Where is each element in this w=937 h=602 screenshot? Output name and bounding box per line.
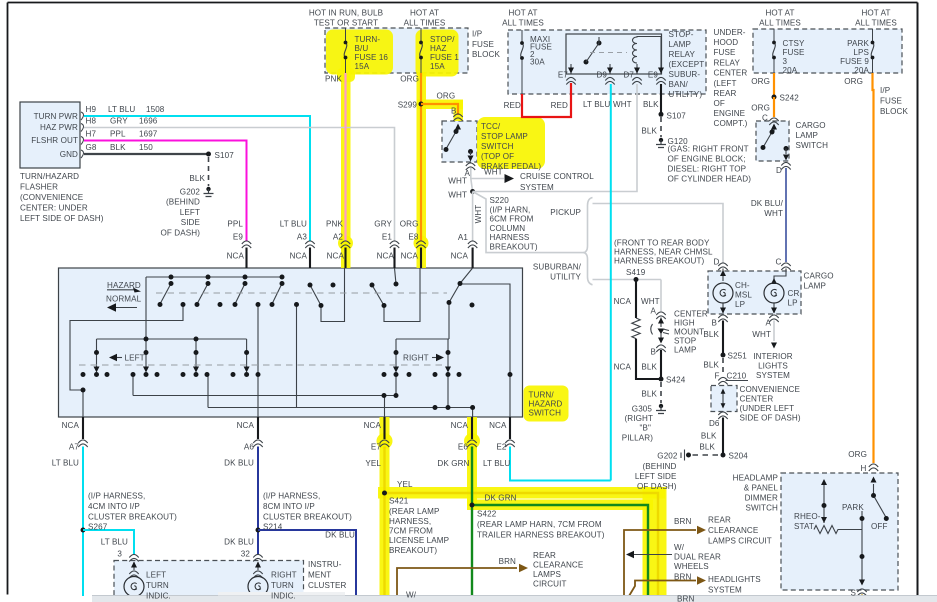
svg-text:S220: S220: [490, 196, 510, 205]
text: WHT vertical on A1 wire: [474, 205, 483, 224]
switch contact dots: [81, 275, 513, 411]
wire NCA resistor to S424: [636, 339, 661, 379]
svg-text:ALL TIMES: ALL TIMES: [759, 19, 801, 28]
svg-text:FLSHR OUT: FLSHR OUT: [31, 136, 78, 145]
highlight band on YEL horizontal run: [378, 487, 665, 499]
wire BLK dashed S424 to G305: [660, 382, 662, 403]
svg-text:PPL: PPL: [110, 130, 126, 139]
svg-text:20A: 20A: [854, 66, 869, 75]
svg-text:OF DASH): OF DASH): [637, 482, 677, 491]
svg-text:(I/P HARN,: (I/P HARN,: [490, 205, 531, 214]
svg-text:3: 3: [783, 57, 788, 66]
dual rear wheels pointer: [626, 551, 672, 558]
text: front to rear body harness: [614, 239, 713, 278]
svg-text:C210: C210: [727, 372, 747, 381]
svg-text:(BEHIND: (BEHIND: [643, 462, 677, 471]
switch dashed guide lines: [79, 293, 447, 365]
svg-text:STAT: STAT: [794, 522, 814, 531]
highlighter marks (yellow): [326, 30, 667, 597]
svg-text:NCA: NCA: [227, 252, 245, 261]
MAXI fuse 2: [520, 30, 524, 94]
svg-text:LP: LP: [788, 299, 798, 308]
svg-text:HOT IN RUN, BULB: HOT IN RUN, BULB: [309, 9, 383, 18]
cargo lamp switch contacts: [761, 124, 790, 161]
svg-text:FUSE 1: FUSE 1: [430, 53, 459, 62]
ground G202 (behind left side of dash, right): [681, 450, 691, 461]
svg-text:H9: H9: [86, 105, 97, 114]
svg-text:NCA: NCA: [364, 421, 382, 430]
svg-text:CTSY: CTSY: [783, 39, 805, 48]
svg-text:SWITCH: SWITCH: [796, 141, 829, 150]
wire WHT CR-A to interior lights: [771, 321, 777, 349]
text: I/P fuse block left: [472, 30, 500, 60]
wire LT BLU A7 to S267 and down: [82, 447, 84, 597]
text: S107 left and G202: [161, 151, 235, 238]
svg-text:CENTER: CENTER: [740, 395, 774, 404]
highlight burst at E7 connector: [377, 433, 393, 449]
svg-text:FUSE: FUSE: [880, 97, 902, 106]
svg-text:E7: E7: [558, 71, 568, 80]
svg-text:(FRONT TO REAR BODY: (FRONT TO REAR BODY: [614, 239, 710, 248]
svg-text:E9: E9: [648, 71, 658, 80]
svg-text:OF CYLINDER HEAD): OF CYLINDER HEAD): [668, 175, 752, 184]
wire BLK CHMSL B to S424: [660, 350, 662, 379]
text: S220 caption: [490, 196, 538, 252]
svg-text:LT BLU: LT BLU: [280, 220, 307, 229]
text: interior lights system: [753, 352, 793, 380]
svg-text:150: 150: [139, 143, 153, 152]
svg-text:MSL: MSL: [735, 291, 752, 300]
svg-text:HOT AT: HOT AT: [765, 9, 794, 18]
svg-text:LT BLU: LT BLU: [52, 459, 79, 468]
turn/hazard switch box: [59, 268, 523, 417]
text: S267 caption: [88, 492, 177, 532]
svg-text:ALL TIMES: ALL TIMES: [404, 19, 446, 28]
svg-text:C: C: [776, 258, 782, 267]
svg-text:HOOD: HOOD: [714, 38, 739, 47]
svg-text:S: S: [851, 589, 857, 598]
contact 1: [160, 284, 171, 305]
svg-text:S419: S419: [626, 268, 646, 277]
svg-text:(REAR LAMP: (REAR LAMP: [389, 507, 439, 516]
svg-text:A: A: [651, 307, 657, 316]
contact 6: [372, 285, 384, 306]
svg-text:6CM FROM: 6CM FROM: [490, 215, 534, 224]
hazard label arrow: [107, 288, 141, 293]
svg-text:ENGINE: ENGINE: [714, 109, 746, 118]
svg-text:UNDER-: UNDER-: [714, 28, 746, 37]
svg-text:HEADLIGHTS: HEADLIGHTS: [708, 575, 761, 584]
svg-text:SYSTEM: SYSTEM: [756, 371, 790, 380]
svg-text:CARGO: CARGO: [796, 121, 826, 130]
contact 2: [197, 284, 208, 305]
left riser to A7: [70, 305, 183, 417]
svg-text:15A: 15A: [355, 62, 370, 71]
svg-text:TURN: TURN: [146, 581, 169, 590]
black stubs from top connectors into switch box: [247, 248, 473, 269]
svg-text:YEL: YEL: [397, 480, 413, 489]
svg-text:S242: S242: [780, 94, 800, 103]
text: maxi fuse: [530, 35, 552, 67]
text: stop lamp relay caption: [669, 30, 705, 99]
svg-text:S107: S107: [215, 151, 235, 160]
svg-text:LEFT SIDE: LEFT SIDE: [635, 472, 677, 481]
contact 5: [310, 285, 321, 306]
svg-text:(BEHIND: (BEHIND: [166, 198, 200, 207]
bottom pin stubs of turn/hazard switch: [83, 417, 510, 439]
svg-text:NCA: NCA: [489, 421, 507, 430]
wire LT BLU 1508 from flasher H9: [84, 116, 310, 241]
svg-text:LT BLU: LT BLU: [108, 105, 135, 114]
svg-text:G305: G305: [632, 405, 653, 414]
cargo lamp switch box: [756, 121, 789, 161]
svg-text:CLUSTER BREAKOUT): CLUSTER BREAKOUT): [263, 513, 352, 522]
svg-text:1697: 1697: [139, 130, 158, 139]
svg-text:I/P: I/P: [472, 30, 482, 39]
svg-text:DIMMER: DIMMER: [745, 494, 778, 503]
svg-text:DK BLU: DK BLU: [224, 459, 254, 468]
svg-text:G8: G8: [86, 143, 97, 152]
svg-text:YEL: YEL: [365, 459, 381, 468]
svg-text:LIGHTS: LIGHTS: [758, 362, 788, 371]
text: relay pin ids: [558, 71, 658, 80]
svg-text:LAMP: LAMP: [804, 282, 826, 291]
text: A1 NCA: [451, 233, 469, 261]
svg-text:D9: D9: [596, 71, 607, 80]
svg-text:SYSTEM: SYSTEM: [520, 183, 554, 192]
svg-text:CRUISE CONTROL: CRUISE CONTROL: [520, 172, 594, 181]
text: TCC A WHT labels: [448, 169, 470, 200]
text: left right: [125, 354, 429, 363]
turn/hazard flasher box: [20, 102, 80, 168]
text: CH-MSL LP: [735, 281, 752, 309]
text: pickup suburban: [533, 208, 582, 282]
svg-text:(REAR LAMP HARN, 7CM FROM: (REAR LAMP HARN, 7CM FROM: [477, 520, 602, 529]
E6 riser: [208, 305, 473, 417]
svg-text:FUSE 9: FUSE 9: [840, 57, 869, 66]
inner rect left: [97, 277, 247, 339]
svg-text:RIGHT: RIGHT: [403, 354, 429, 363]
text: CTSY fuse: [783, 39, 805, 75]
moving contact stems left: [97, 339, 247, 369]
svg-text:DK BLU: DK BLU: [325, 531, 355, 540]
svg-text:BLK: BLK: [641, 363, 657, 372]
text: flasher pins: [31, 112, 78, 159]
text: D and DK BLU/WHT: [751, 166, 784, 218]
text: cargo lamp caption: [804, 272, 834, 291]
text: B BLK NCA S424 at CHMSL: [614, 348, 686, 399]
highlight over STOP/HAZ FUSE 1 text: [416, 30, 459, 77]
svg-text:BLK: BLK: [699, 443, 715, 452]
svg-text:SWITCH: SWITCH: [529, 409, 562, 418]
svg-text:S107: S107: [667, 112, 687, 121]
text: flasher wire codes: [86, 105, 165, 152]
text: ORG labels under right fuse box: [751, 77, 863, 86]
svg-text:C: C: [762, 114, 768, 123]
svg-text:FUSE: FUSE: [714, 48, 736, 57]
page frame left: [7, 3, 9, 595]
wire ORG from fuse 1 through S299 to E8: [420, 73, 422, 241]
svg-text:ORG: ORG: [751, 104, 770, 113]
svg-text:DK GRN: DK GRN: [437, 459, 469, 468]
right inner rect: [396, 303, 449, 370]
text: bottom pin labels: [52, 421, 507, 468]
splice S267: [81, 528, 86, 533]
svg-text:8CM INTO I/P: 8CM INTO I/P: [263, 502, 315, 511]
wire YEL E7 through S421: [385, 447, 659, 597]
svg-text:(UNDER LEFT: (UNDER LEFT: [740, 404, 795, 413]
dimmer switch rheostat arm: [821, 479, 827, 523]
relay coil: [633, 37, 662, 65]
svg-text:PARK: PARK: [847, 39, 869, 48]
svg-text:BREAKOUT): BREAKOUT): [389, 546, 437, 555]
svg-text:(CONVENIENCE: (CONVENIENCE: [20, 193, 84, 202]
svg-text:(TOP OF: (TOP OF: [481, 152, 514, 161]
svg-text:BLOCK: BLOCK: [880, 107, 908, 116]
svg-text:S267: S267: [88, 523, 108, 532]
highlight band on ORG fuse wire: [417, 72, 427, 268]
U link E8 to contact 6: [384, 268, 420, 322]
wire GRY 1696 from flasher H8: [84, 128, 395, 242]
svg-text:MENT: MENT: [308, 571, 331, 580]
svg-text:BAN/: BAN/: [669, 80, 689, 89]
svg-text:S421: S421: [389, 497, 409, 506]
svg-text:BLK: BLK: [703, 330, 719, 339]
svg-text:HIGH: HIGH: [674, 319, 695, 328]
text: D6 BLK S204: [699, 419, 748, 461]
highlight over TCC/STOP LAMP SWITCH text: [477, 117, 545, 169]
svg-text:S424: S424: [666, 376, 686, 385]
svg-text:20A: 20A: [783, 66, 798, 75]
I/P fuse block box (top right, CTSY + PARK fuses): [753, 29, 902, 73]
svg-text:LEFT SIDE OF DASH): LEFT SIDE OF DASH): [20, 214, 104, 223]
connector C cargo lamp box: [781, 263, 790, 270]
svg-text:BLK: BLK: [110, 143, 126, 152]
text: cargo lamp box pins: [714, 258, 782, 267]
normal label arrow: [107, 303, 137, 311]
splice S251: [721, 353, 726, 358]
wire WHT from relay D7 to junction: [473, 84, 637, 192]
wire PPL 1697 from flasher H7: [84, 141, 247, 242]
svg-text:LPS: LPS: [853, 48, 869, 57]
svg-text:FLASHER: FLASHER: [20, 183, 58, 192]
splice S424: [659, 377, 664, 382]
svg-text:CARGO: CARGO: [804, 272, 834, 281]
I/P fuse block box (top left, fuses 16 and 1): [325, 28, 468, 73]
svg-text:NCA: NCA: [451, 421, 469, 430]
svg-text:TURN/HAZARD: TURN/HAZARD: [20, 172, 79, 181]
svg-text:LEFT: LEFT: [180, 208, 200, 217]
underhood fuse relay center box: [508, 30, 706, 94]
wire WHT S419 to CHMSL A: [660, 280, 662, 312]
connector A below CR LP: [769, 315, 778, 322]
splice S422: [470, 503, 475, 508]
svg-text:SWITCH: SWITCH: [481, 142, 514, 151]
svg-text:LT BLU: LT BLU: [483, 459, 510, 468]
svg-text:HARNESS BREAKOUT): HARNESS BREAKOUT): [614, 257, 705, 266]
connector H dimmer switch: [869, 464, 878, 471]
svg-text:ALL TIMES: ALL TIMES: [855, 19, 897, 28]
bottom pin connectors A7 A6 E7 E6 E2: [78, 440, 514, 447]
svg-text:SWITCH: SWITCH: [745, 504, 778, 513]
svg-text:(I/P HARNESS,: (I/P HARNESS,: [263, 492, 320, 501]
svg-text:E6: E6: [458, 443, 468, 452]
hazard bus: [146, 276, 282, 278]
svg-text:S422: S422: [477, 510, 497, 519]
instrument cluster box: [114, 561, 304, 602]
svg-text:ORG: ORG: [848, 450, 867, 459]
text: S299 B branch: [398, 92, 457, 116]
svg-text:LT BLU: LT BLU: [583, 100, 610, 109]
svg-text:CR: CR: [788, 289, 800, 298]
wire WHT junction down to A1: [472, 192, 474, 242]
svg-text:A6: A6: [244, 443, 254, 452]
relay pin connectors E7 D9 D7 E9: [566, 77, 665, 84]
svg-text:ORG: ORG: [844, 77, 863, 86]
PARK LPS fuse 9: [871, 29, 875, 73]
svg-text:32: 32: [241, 550, 251, 559]
svg-text:(RIGHT: (RIGHT: [625, 414, 653, 423]
wire BLK dashed S204 to G202: [692, 454, 718, 456]
svg-text:PARK: PARK: [842, 503, 864, 512]
A6 riser: [257, 305, 259, 417]
svg-text:BRN: BRN: [677, 595, 694, 602]
svg-text:NORMAL: NORMAL: [106, 295, 142, 304]
svg-text:HAZ PWR: HAZ PWR: [40, 123, 78, 132]
svg-text:SUBURBAN/: SUBURBAN/: [533, 263, 582, 272]
wire WHT branch to cruise control: [471, 174, 514, 183]
highlight over TURN-B/U FUSE 16 text: [326, 30, 393, 75]
svg-text:A7: A7: [69, 443, 79, 452]
highlight band on E7 YEL wire: [380, 417, 390, 596]
wire DK GRN E6 through S422: [472, 447, 648, 597]
svg-text:DUAL REAR: DUAL REAR: [674, 553, 721, 562]
svg-text:D6: D6: [709, 419, 720, 428]
connector D cargo lamp switch: [781, 162, 790, 169]
svg-text:CENTER: UNDER: CENTER: UNDER: [20, 204, 88, 213]
svg-text:SIDE: SIDE: [181, 218, 201, 227]
brace pickup/suburban: [584, 198, 593, 285]
svg-text:ALL TIMES: ALL TIMES: [502, 19, 544, 28]
wire WHT suburban arm to S419: [593, 279, 662, 281]
wire WHT junction to pickup/suburban brace: [473, 192, 584, 253]
wire DK BLU S214 branch down right: [258, 530, 356, 596]
svg-text:LICENSE LAMP: LICENSE LAMP: [389, 536, 449, 545]
svg-text:CONVENIENCE: CONVENIENCE: [740, 385, 801, 394]
svg-text:BLK: BLK: [701, 432, 717, 441]
svg-text:NCA: NCA: [377, 252, 395, 261]
svg-text:B: B: [712, 319, 718, 328]
svg-text:NCA: NCA: [290, 252, 308, 261]
highlight burst at E6 connector: [464, 433, 480, 449]
connector D6: [718, 412, 727, 419]
svg-text:RHEO-: RHEO-: [794, 512, 821, 521]
CR LP bulb: [764, 269, 786, 314]
dimmer off switch blade: [871, 477, 889, 522]
text: w/ dual rear wheels: [674, 543, 721, 571]
svg-text:15A: 15A: [430, 62, 445, 71]
turn/hazard switch internals: [70, 268, 510, 417]
wire ORG PARK fuse down to dimmer H: [873, 73, 874, 463]
top pin connectors of turn/hazard switch: [242, 241, 477, 248]
wire BRN rear clearance (left): [397, 564, 528, 596]
svg-text:H8: H8: [86, 117, 97, 126]
text: underhood fuse relay center caption: [714, 28, 748, 128]
wire LT BLU relay D9 down: [610, 84, 612, 481]
svg-text:LAMPS: LAMPS: [533, 570, 561, 579]
svg-text:CENTER: CENTER: [674, 310, 708, 319]
connector B below CH-MSL: [718, 315, 727, 322]
wire BRN rear clearance (right): [624, 526, 706, 596]
svg-text:B: B: [451, 107, 457, 116]
splice S204: [721, 453, 726, 458]
svg-text:D: D: [714, 258, 720, 267]
svg-text:7CM FROM: 7CM FROM: [389, 527, 433, 536]
ground G120: [656, 138, 666, 148]
svg-text:OF DASH): OF DASH): [161, 229, 201, 238]
text: convenience center caption: [740, 385, 801, 423]
svg-text:S251: S251: [728, 352, 748, 361]
connector B of CHMSL: [656, 345, 665, 352]
svg-text:W/: W/: [406, 591, 417, 600]
text: cargo lamp switch caption: [796, 121, 829, 150]
splice S214: [256, 528, 261, 533]
text: NCA WHT at S419: [614, 297, 660, 316]
wire BLK CHMSL-B to S251: [722, 321, 724, 356]
svg-text:INDIC.: INDIC.: [271, 592, 296, 601]
svg-text:NCA: NCA: [62, 421, 80, 430]
connector A of CHMSL: [656, 312, 665, 319]
svg-text:A: A: [766, 319, 772, 328]
right arrow: [432, 354, 444, 361]
svg-text:& PANEL: & PANEL: [744, 484, 779, 493]
text: brn rear clearance right: [674, 516, 772, 546]
svg-text:BRN: BRN: [674, 517, 691, 526]
svg-text:HARNESS: HARNESS: [490, 233, 530, 242]
wire BLK relay E9 to S107: [660, 84, 662, 114]
svg-text:HARNESS, NEAR CHMSL: HARNESS, NEAR CHMSL: [614, 248, 713, 257]
wire BLK dashed S251 to C210: [722, 358, 724, 376]
text: rheostat park off: [794, 503, 887, 598]
svg-text:S204: S204: [729, 452, 749, 461]
svg-text:DIESEL: RIGHT TOP: DIESEL: RIGHT TOP: [668, 165, 747, 174]
text: I/P fuse block right: [880, 86, 908, 116]
svg-text:LEFT: LEFT: [146, 571, 166, 580]
wire PNK from fuse 16 to A2: [344, 73, 346, 241]
center high mount stop lamp (LED): [651, 318, 669, 344]
svg-text:TURN PWR: TURN PWR: [34, 112, 78, 121]
text: right turn indic: [271, 571, 297, 601]
svg-text:WHT: WHT: [448, 191, 467, 200]
svg-text:D: D: [776, 166, 782, 175]
svg-text:1696: 1696: [139, 117, 158, 126]
svg-text:CLUSTER BREAKOUT): CLUSTER BREAKOUT): [88, 513, 177, 522]
wire NCA S419 down to resistor: [635, 280, 637, 319]
svg-text:FUSE: FUSE: [472, 40, 494, 49]
svg-text:30A: 30A: [530, 58, 545, 67]
wire LT BLU E2 joining D9 run: [510, 447, 611, 481]
wire ORG branch S299 to B: [421, 104, 458, 115]
junction dot WHT: [470, 189, 475, 194]
highlight over TURN/HAZARD SWITCH text: [524, 386, 569, 422]
svg-text:CH-: CH-: [735, 281, 750, 290]
highlight band on DK GRN horizontal run: [467, 500, 653, 511]
svg-text:GRY: GRY: [374, 220, 392, 229]
svg-text:NCA: NCA: [237, 421, 255, 430]
svg-text:B: B: [651, 348, 657, 357]
svg-text:A1: A1: [458, 233, 468, 242]
stop lamp relay internals: [568, 37, 664, 75]
